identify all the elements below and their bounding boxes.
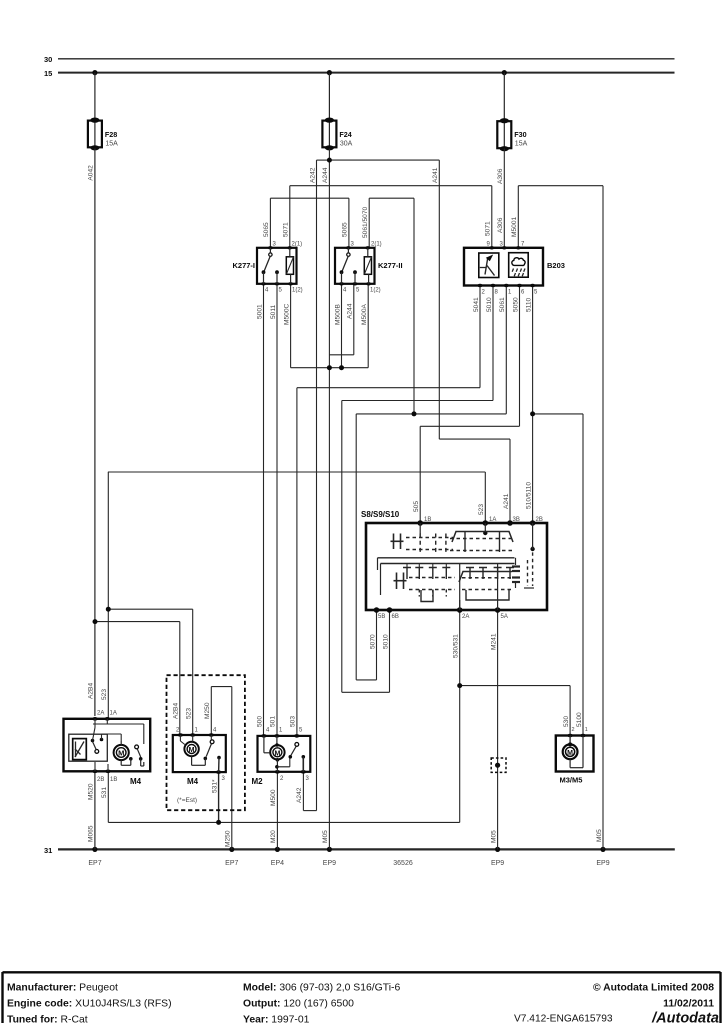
svg-text:5070: 5070: [369, 634, 376, 649]
svg-text:/Autodata: /Autodata: [651, 1011, 719, 1023]
svg-text:M5001: M5001: [511, 217, 518, 237]
svg-text:5071: 5071: [485, 221, 492, 236]
svg-text:5041: 5041: [473, 297, 480, 312]
svg-text:A241: A241: [503, 493, 510, 509]
svg-text:523: 523: [478, 504, 485, 515]
svg-text:5010: 5010: [486, 297, 493, 312]
svg-text:5065: 5065: [342, 222, 349, 237]
svg-text:M520: M520: [88, 783, 95, 800]
svg-text:531: 531: [101, 787, 108, 798]
svg-text:Output: 120 (167) 6500: Output: 120 (167) 6500: [243, 999, 354, 1010]
svg-text:M3/M5: M3/M5: [560, 776, 583, 785]
svg-text:M500B: M500B: [334, 304, 341, 325]
svg-text:503: 503: [290, 716, 297, 727]
svg-text:531*: 531*: [211, 779, 218, 793]
svg-text:© Autodata Limited 2008: © Autodata Limited 2008: [593, 983, 714, 994]
svg-text:A2B4: A2B4: [88, 683, 95, 699]
svg-text:F24: F24: [339, 130, 351, 139]
svg-text:Model: 306 (97-03) 2,0 S16/GTi: Model: 306 (97-03) 2,0 S16/GTi-6: [243, 983, 400, 994]
svg-text:5071: 5071: [283, 222, 290, 237]
svg-text:5110: 5110: [525, 297, 532, 312]
svg-text:M241: M241: [490, 633, 497, 650]
svg-text:M: M: [189, 747, 195, 754]
svg-text:A242: A242: [296, 787, 303, 803]
svg-text:Manufacturer: Peugeot: Manufacturer: Peugeot: [7, 983, 118, 994]
svg-text:M4: M4: [130, 777, 142, 786]
svg-text:500: 500: [257, 716, 264, 727]
svg-text:Engine code: XU10J4RS/L3 (RFS): Engine code: XU10J4RS/L3 (RFS): [7, 999, 172, 1010]
svg-text:523: 523: [186, 708, 193, 719]
svg-text:510/5110: 510/5110: [525, 482, 532, 509]
svg-text:F30: F30: [514, 130, 526, 139]
svg-text:2B: 2B: [536, 517, 543, 523]
svg-text:M2: M2: [252, 777, 264, 786]
svg-text:2: 2: [572, 727, 575, 733]
svg-text:M065: M065: [88, 825, 95, 842]
svg-text:K277-II: K277-II: [378, 261, 403, 270]
svg-text:M500: M500: [270, 789, 277, 806]
svg-text:A042: A042: [88, 165, 95, 181]
svg-text:15A: 15A: [105, 141, 118, 148]
svg-text:EP4: EP4: [271, 860, 284, 867]
svg-text:2B: 2B: [97, 777, 104, 783]
svg-text:S8/S9/S10: S8/S9/S10: [361, 510, 400, 519]
svg-text:M: M: [274, 750, 280, 757]
svg-text:M4: M4: [187, 777, 199, 786]
svg-text:5061/5070: 5061/5070: [362, 206, 369, 238]
svg-text:5010: 5010: [382, 634, 389, 649]
svg-text:A306: A306: [497, 168, 504, 184]
svg-text:5A: 5A: [501, 614, 508, 620]
svg-text:A244: A244: [322, 167, 329, 183]
svg-text:5001: 5001: [256, 304, 263, 319]
svg-text:523: 523: [101, 689, 108, 700]
svg-text:2(1): 2(1): [371, 242, 382, 248]
svg-text:EP7: EP7: [225, 860, 238, 867]
svg-text:M250: M250: [225, 830, 232, 847]
svg-text:31: 31: [44, 846, 52, 855]
svg-text:M500C: M500C: [283, 304, 290, 325]
svg-text:M250: M250: [204, 702, 211, 719]
svg-text:Year: 1997-01: Year: 1997-01: [243, 1015, 310, 1023]
svg-text:Tuned for: R-Cat: Tuned for: R-Cat: [7, 1015, 88, 1023]
svg-text:A244: A244: [347, 303, 354, 319]
svg-text:505: 505: [413, 501, 420, 512]
svg-text:1A: 1A: [110, 711, 117, 717]
svg-text:1B: 1B: [110, 777, 117, 783]
svg-text:30A: 30A: [340, 141, 353, 148]
svg-text:2A: 2A: [97, 711, 104, 717]
svg-text:B203: B203: [547, 261, 565, 270]
svg-text:6B: 6B: [392, 614, 399, 620]
svg-text:1A: 1A: [489, 517, 496, 523]
svg-text:3B: 3B: [513, 517, 520, 523]
svg-text:15A: 15A: [515, 141, 528, 148]
svg-text:A2B4: A2B4: [173, 703, 180, 719]
svg-text:5B: 5B: [378, 614, 385, 620]
svg-text:EP9: EP9: [491, 860, 504, 867]
svg-text:1(2): 1(2): [292, 288, 303, 294]
svg-text:M: M: [118, 749, 124, 758]
svg-text:EP9: EP9: [596, 860, 609, 867]
svg-text:K277-I: K277-I: [232, 261, 255, 270]
svg-text:11/02/2011: 11/02/2011: [663, 999, 714, 1010]
svg-text:EP7: EP7: [88, 860, 101, 867]
svg-text:M05: M05: [490, 830, 497, 843]
svg-text:5061: 5061: [499, 297, 506, 312]
svg-text:2A: 2A: [462, 614, 469, 620]
svg-text:V7.412-ENGA615793: V7.412-ENGA615793: [514, 1014, 613, 1023]
svg-text:36526: 36526: [393, 860, 413, 867]
svg-text:1: 1: [585, 727, 588, 733]
svg-text:F28: F28: [105, 130, 117, 139]
svg-text:501: 501: [270, 716, 277, 727]
svg-text:M: M: [567, 750, 573, 757]
svg-text:M05: M05: [596, 829, 603, 842]
svg-text:2(1): 2(1): [292, 242, 303, 248]
svg-text:5100: 5100: [576, 712, 583, 727]
svg-text:M20: M20: [270, 830, 277, 843]
svg-text:EP9: EP9: [323, 860, 336, 867]
svg-text:5050: 5050: [512, 297, 519, 312]
svg-text:5065: 5065: [263, 222, 270, 237]
svg-text:530/531: 530/531: [453, 634, 460, 658]
svg-text:A241: A241: [432, 167, 439, 183]
svg-text:M05: M05: [322, 830, 329, 843]
svg-text:A306: A306: [497, 217, 504, 233]
svg-text:530: 530: [563, 716, 570, 727]
svg-text:(*=Est): (*=Est): [177, 797, 197, 804]
svg-text:30: 30: [44, 55, 52, 64]
svg-text:1(2): 1(2): [370, 288, 381, 294]
svg-text:M500A: M500A: [361, 304, 368, 325]
svg-text:A242: A242: [309, 167, 316, 183]
svg-text:15: 15: [44, 69, 52, 78]
svg-text:5011: 5011: [270, 304, 277, 319]
svg-text:1B: 1B: [424, 517, 431, 523]
